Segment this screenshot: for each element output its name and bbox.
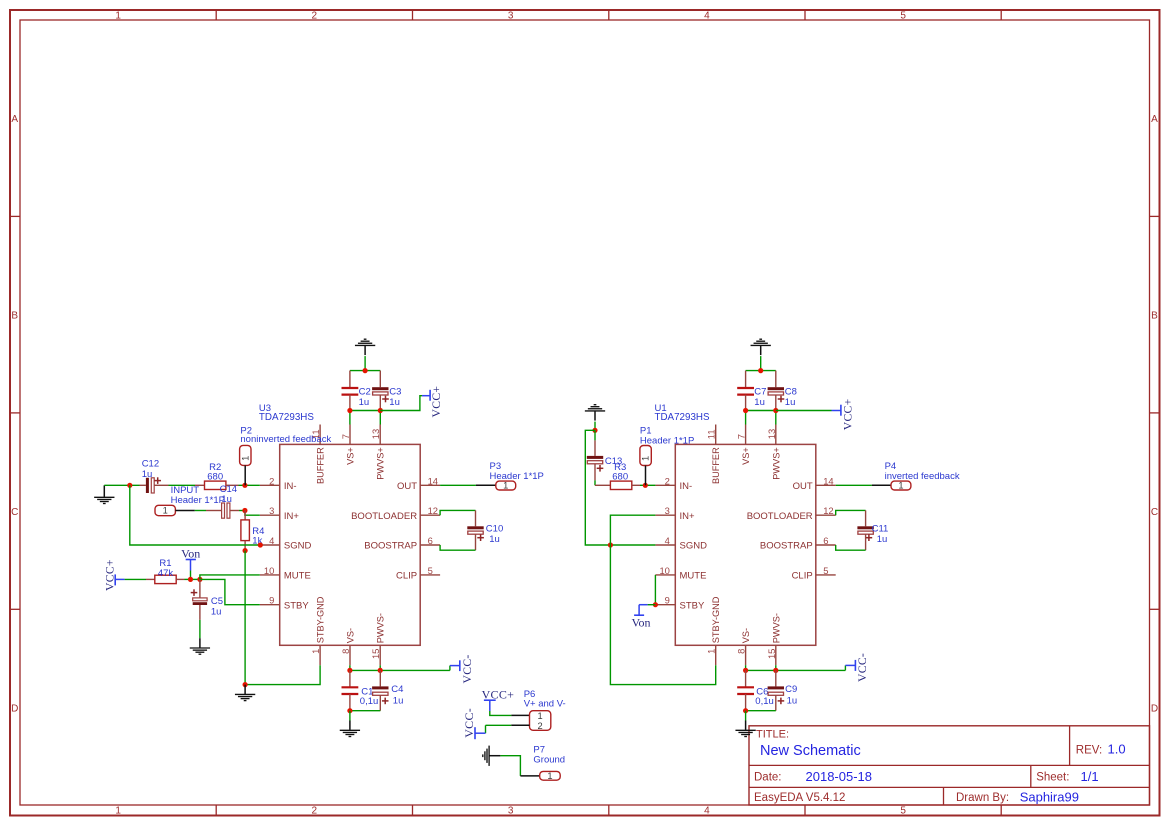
svg-text:1: 1 (115, 806, 121, 817)
wire: top gnd rail C7-C8 (746, 370, 776, 372)
svg-text:1u: 1u (211, 607, 222, 618)
capacitor C12 1u (140, 458, 169, 493)
ground (under C6/C9) (735, 721, 755, 737)
U1 pin 3 (IN+) (655, 505, 695, 522)
U3 pin 4 (SGND) (260, 535, 312, 552)
svg-text:4: 4 (269, 535, 274, 546)
svg-text:5: 5 (900, 806, 906, 817)
ground (bottom left of U3) (235, 685, 255, 701)
U3 pin 14 (OUT) (397, 475, 440, 492)
ground (top, above C7/C8) (751, 339, 771, 370)
svg-text:2: 2 (665, 475, 670, 486)
wire: gnd flag to P7 (500, 756, 539, 776)
ground (top, above C2/C3) (355, 339, 375, 370)
svg-text:Header 1*1P: Header 1*1P (640, 435, 694, 446)
svg-text:Von: Von (181, 546, 200, 560)
svg-text:VCC+: VCC+ (104, 559, 117, 591)
node: U1 pin 15 junction (773, 668, 778, 673)
ground (under C1/C4) (340, 721, 360, 737)
U3 pin 8 (VS-) (340, 628, 356, 665)
svg-text:STBY: STBY (680, 600, 705, 611)
svg-text:1: 1 (898, 481, 903, 491)
wire: top gnd rail C2-C3 (350, 370, 380, 372)
svg-text:1u: 1u (877, 534, 888, 545)
U3 refdes label (259, 403, 314, 423)
wire: SGND net (gnd rail to pin 4) (130, 485, 260, 545)
wire: Von node to pin 10 MUTE (200, 575, 260, 580)
U3 pin 6 (BOOSTRAP) (364, 535, 440, 552)
node: noninverted feedback junction (242, 483, 247, 488)
node: junction at C14 right / R4 top (242, 508, 247, 513)
node: SGND junction (608, 542, 613, 547)
svg-text:STBY-GND: STBY-GND (711, 596, 721, 643)
ground flag (P7) (483, 746, 501, 766)
U1 refdes label (655, 403, 710, 423)
capacitor C6 0,1u (737, 670, 774, 710)
node: pin 8 junction (347, 668, 352, 673)
svg-text:Date:: Date: (754, 772, 782, 784)
svg-text:2: 2 (312, 806, 318, 817)
U3 pin 10 (MUTE) (260, 565, 311, 582)
svg-text:13: 13 (766, 429, 777, 439)
svg-text:C9: C9 (785, 684, 797, 695)
ground (under C5) (190, 638, 210, 654)
capacitor C7 1u (737, 371, 766, 411)
svg-text:1/1: 1/1 (1081, 769, 1099, 784)
node: C3 bottom junction (378, 408, 383, 413)
svg-text:680: 680 (612, 472, 628, 483)
svg-text:SGND: SGND (680, 541, 708, 552)
svg-text:2: 2 (269, 475, 274, 486)
svg-text:10: 10 (659, 565, 669, 576)
svg-text:Ground: Ground (533, 754, 565, 765)
wire: U1 VS- rail (746, 665, 846, 670)
svg-text:Drawn By:: Drawn By: (956, 792, 1009, 804)
svg-text:D: D (11, 703, 18, 714)
wire: P6 pin 2 to VCC- flag (486, 725, 530, 733)
svg-text:1u: 1u (389, 397, 400, 408)
svg-text:8: 8 (736, 649, 747, 654)
resistor R2 680 (195, 462, 239, 490)
capacitor C11 1u (bootloader-boostrap) (836, 510, 889, 550)
U3 pin 2 (IN-) (260, 475, 297, 492)
svg-text:TDA7293HS: TDA7293HS (259, 412, 314, 423)
ground (top left of U1) (585, 405, 605, 431)
net label Von (181, 546, 200, 579)
svg-text:4: 4 (665, 535, 670, 546)
svg-text:12: 12 (428, 505, 438, 516)
svg-text:PWVS-: PWVS- (376, 613, 386, 643)
svg-text:OUT: OUT (793, 481, 813, 492)
svg-text:VCC+: VCC+ (430, 386, 443, 418)
svg-text:4: 4 (704, 806, 710, 817)
svg-text:BOOTLOADER: BOOTLOADER (351, 511, 417, 522)
capacitor C1 0,1u (342, 670, 379, 710)
U1 pin 5 (CLIP) (792, 565, 836, 582)
svg-text:STBY: STBY (284, 600, 309, 611)
svg-text:6: 6 (428, 535, 433, 546)
svg-text:Von: Von (631, 615, 650, 629)
wire: VCC+ flag to P6 pin 1 (490, 711, 530, 715)
U3 pin 7 (VS+) (340, 425, 356, 465)
resistor R1 47k (146, 558, 185, 583)
wire: VCC+ to R1 (125, 578, 146, 580)
svg-text:VS-: VS- (741, 628, 751, 643)
svg-text:7: 7 (736, 434, 747, 439)
wire: pin 1 STBY-GND to bottom ground (245, 665, 320, 684)
resistor R3 680 (595, 462, 640, 490)
op-amp U3 TDA7293HS body (280, 444, 421, 645)
U1 pin 4 (SGND) (655, 535, 707, 552)
svg-text:4: 4 (704, 10, 710, 21)
svg-text:BOOSTRAP: BOOSTRAP (760, 541, 813, 552)
header P1 (Header 1*1P) (640, 426, 694, 486)
header P4 inverted feedback (836, 461, 960, 491)
U3 pin 9 (STBY) (260, 595, 310, 612)
U3 pin 5 (CLIP) (396, 565, 440, 582)
svg-text:1u: 1u (785, 397, 796, 408)
svg-text:2: 2 (538, 721, 543, 731)
svg-text:5: 5 (823, 565, 828, 576)
svg-text:D: D (1151, 703, 1158, 714)
node: U1 pin 8 junction (743, 668, 748, 673)
svg-text:1.0: 1.0 (1108, 742, 1126, 757)
U1 pin 1 (STBY-GND) (706, 596, 722, 665)
U3 pin 12 (BOOTLOADER) (351, 505, 440, 522)
svg-text:1u: 1u (489, 534, 500, 545)
svg-text:C11: C11 (872, 523, 889, 534)
node: junction at C12 left (127, 483, 132, 488)
wire: gnd node to SGND rail (left drop) (585, 430, 655, 545)
svg-text:VCC+: VCC+ (842, 398, 855, 430)
svg-text:C4: C4 (391, 684, 403, 695)
capacitor C13 1u (587, 430, 623, 485)
wire: R1 to Von node (185, 578, 200, 580)
svg-text:PWVS+: PWVS+ (376, 447, 386, 479)
svg-text:C5: C5 (211, 596, 223, 607)
svg-text:STBY-GND: STBY-GND (316, 596, 326, 643)
U1 pin 6 (BOOSTRAP) (760, 535, 836, 552)
svg-text:1u: 1u (221, 494, 232, 505)
svg-text:1u: 1u (142, 469, 153, 480)
svg-text:BUFFER: BUFFER (316, 447, 326, 484)
svg-text:C: C (11, 507, 18, 518)
svg-text:B: B (1151, 310, 1158, 321)
power flag VCC+ (at R1) (104, 559, 125, 591)
svg-text:7: 7 (340, 434, 351, 439)
U3 pin 3 (IN+) (260, 505, 300, 522)
svg-text:C: C (1151, 507, 1158, 518)
svg-text:1: 1 (503, 481, 508, 491)
svg-text:New Schematic: New Schematic (760, 743, 861, 759)
U1 pin 12 (BOOTLOADER) (747, 505, 836, 522)
node: C7 bottom junction (743, 408, 748, 413)
header INPUT (Header 1*1P) (155, 485, 225, 516)
node: inverted feedback junction (643, 483, 648, 488)
U1 pin 10 (MUTE) (655, 565, 706, 582)
node: C1 bottom junction (347, 708, 352, 713)
power flag VCC- (at VS- rail) (450, 654, 474, 683)
svg-text:VCC-: VCC- (461, 654, 474, 683)
wire: R4 bottom to bottom gnd rail (244, 551, 246, 685)
svg-text:1u: 1u (359, 397, 370, 408)
svg-text:Header 1*1P: Header 1*1P (171, 495, 225, 506)
svg-text:IN-: IN- (284, 481, 297, 492)
svg-text:1: 1 (641, 456, 651, 461)
node: R4 bottom junction (243, 548, 248, 553)
wire: pin 10 MUTE to pin 9 STBY (654, 575, 656, 605)
svg-text:5: 5 (900, 10, 906, 21)
net label VCC- (P6 pin 2) (462, 708, 486, 739)
svg-text:1: 1 (115, 10, 121, 21)
svg-text:IN+: IN+ (680, 511, 696, 522)
header P3 (Header 1*1P at OUT) (440, 461, 544, 491)
svg-text:VS+: VS+ (741, 447, 751, 465)
svg-text:3: 3 (508, 806, 514, 817)
wire: input gnd to C12 (104, 484, 139, 486)
wire: R3 to pin 2 (640, 484, 655, 486)
svg-text:inverted feedback: inverted feedback (885, 471, 960, 482)
svg-text:OUT: OUT (397, 481, 417, 492)
svg-text:C10: C10 (486, 523, 503, 534)
svg-text:C7: C7 (754, 386, 766, 397)
U1 pin 11 (BUFFER) (706, 425, 722, 485)
svg-text:1: 1 (310, 649, 321, 654)
svg-text:Saphira99: Saphira99 (1020, 789, 1079, 804)
svg-text:9: 9 (665, 595, 670, 606)
svg-text:1: 1 (706, 649, 717, 654)
svg-text:3: 3 (665, 505, 670, 516)
node: Von junction (188, 577, 193, 582)
svg-text:B: B (11, 310, 18, 321)
svg-text:14: 14 (428, 475, 438, 486)
svg-text:2: 2 (312, 10, 318, 21)
svg-text:noninverted feedback: noninverted feedback (240, 434, 331, 445)
header P6 V+ and V- (524, 689, 566, 731)
wire: VS- rail (350, 665, 450, 670)
resistor R4 1k (241, 511, 265, 551)
op-amp U1 TDA7293HS body (675, 444, 816, 645)
svg-text:A: A (11, 114, 18, 125)
svg-text:3: 3 (269, 505, 274, 516)
svg-text:BOOTLOADER: BOOTLOADER (747, 511, 813, 522)
wire: INPUT header to C14 (195, 510, 206, 512)
wire: C5 to ground (199, 620, 201, 638)
svg-text:IN-: IN- (680, 481, 693, 492)
U3 pin 11 (BUFFER) (310, 425, 326, 485)
header P2 noninverted feedback (240, 426, 332, 486)
svg-text:1u: 1u (393, 696, 404, 707)
capacitor C10 1u (bootloader-boostrap) (440, 510, 503, 550)
wire: C1 bottom to ground (349, 711, 351, 721)
power flag VCC+ (top, at C3) (380, 386, 443, 418)
svg-text:TITLE:: TITLE: (756, 729, 789, 741)
node: junction above C13 (592, 428, 597, 433)
net label Von (U1 STBY) (631, 605, 655, 630)
ground (input, far left) (94, 485, 114, 503)
U1 pin 15 (PWVS-) (766, 613, 782, 665)
wire: R2 to pin 2 node (239, 484, 260, 486)
svg-text:BOOSTRAP: BOOSTRAP (364, 541, 417, 552)
capacitor C8 1u (768, 371, 797, 411)
svg-text:REV:: REV: (1076, 744, 1102, 756)
svg-text:C8: C8 (785, 386, 797, 397)
svg-text:5: 5 (428, 565, 433, 576)
svg-text:C3: C3 (389, 386, 401, 397)
wire: SGND down to pin 1 STBY-GND (610, 545, 715, 685)
svg-text:15: 15 (766, 649, 777, 659)
svg-text:11: 11 (706, 429, 717, 439)
svg-text:13: 13 (370, 429, 381, 439)
capacitor C2 1u (342, 371, 371, 411)
node: junction at pin 4 (258, 542, 263, 547)
svg-text:1: 1 (547, 771, 552, 781)
svg-text:VS+: VS+ (346, 447, 356, 465)
net label VCC+ (P6 pin 1) (482, 687, 515, 711)
svg-text:VS-: VS- (346, 628, 356, 643)
node: bottom ground junction (243, 682, 248, 687)
capacitor C9 1u (746, 670, 798, 710)
capacitor C3 1u (372, 371, 401, 411)
node: C6 bottom junction (743, 708, 748, 713)
svg-text:V+ and V-: V+ and V- (524, 699, 566, 710)
svg-text:A: A (1151, 114, 1158, 125)
svg-text:47k: 47k (158, 568, 174, 579)
svg-text:1: 1 (163, 506, 168, 516)
svg-text:14: 14 (823, 475, 833, 486)
node: pin 15 junction (378, 668, 383, 673)
svg-text:BUFFER: BUFFER (711, 447, 721, 484)
svg-text:3: 3 (508, 10, 514, 21)
svg-text:1u: 1u (754, 397, 765, 408)
capacitor C5 1u (191, 579, 223, 620)
U1 pin 8 (VS-) (736, 628, 752, 665)
svg-text:0,1u: 0,1u (755, 696, 774, 707)
svg-text:0,1u: 0,1u (360, 696, 379, 707)
wire: SGND to pin 3 IN+ (610, 515, 655, 545)
svg-text:TDA7293HS: TDA7293HS (655, 412, 710, 423)
node: STBY junction (653, 602, 658, 607)
svg-text:VCC+: VCC+ (482, 687, 515, 701)
svg-text:MUTE: MUTE (284, 571, 311, 582)
U3 pin 13 (PWVS+) (370, 425, 386, 480)
svg-text:PWVS-: PWVS- (771, 613, 781, 643)
capacitor C4 1u (350, 670, 404, 710)
wire: VS+ rail under C2/C3 (350, 411, 380, 425)
svg-text:VCC-: VCC- (856, 653, 869, 682)
svg-text:EasyEDA V5.4.12: EasyEDA V5.4.12 (754, 792, 845, 804)
wire: Von node to pin 9 STBY (200, 579, 260, 604)
svg-text:MUTE: MUTE (680, 571, 707, 582)
wire: C14 to pin 3 (239, 511, 260, 516)
svg-text:Header 1*1P: Header 1*1P (490, 471, 544, 482)
wire: C12 to R2 (169, 484, 196, 486)
svg-text:CLIP: CLIP (396, 571, 417, 582)
svg-text:IN+: IN+ (284, 511, 300, 522)
U1 pin 14 (OUT) (793, 475, 836, 492)
U1 pin 7 (VS+) (736, 425, 752, 465)
wire: C6 bottom to ground (745, 711, 747, 721)
svg-text:15: 15 (370, 649, 381, 659)
node: top gnd junction (363, 368, 368, 373)
svg-text:C2: C2 (359, 386, 371, 397)
svg-text:10: 10 (264, 565, 274, 576)
svg-text:1: 1 (240, 456, 250, 461)
U1 pin 13 (PWVS+) (766, 425, 782, 480)
U3 pin 15 (PWVS-) (370, 613, 386, 665)
svg-text:680: 680 (207, 472, 223, 483)
svg-text:9: 9 (269, 595, 274, 606)
U1 pin 2 (IN-) (655, 475, 692, 492)
svg-text:1u: 1u (787, 696, 798, 707)
svg-text:12: 12 (823, 505, 833, 516)
svg-text:8: 8 (340, 649, 351, 654)
svg-text:1: 1 (538, 711, 543, 721)
power flag VCC- (U1 VS- rail) (845, 653, 869, 682)
node: C2 bottom junction (347, 408, 352, 413)
svg-text:2018-05-18: 2018-05-18 (806, 769, 873, 784)
power flag VCC+ (top, at C8) (776, 398, 855, 430)
node: C5 top junction (197, 577, 202, 582)
title block (749, 726, 1150, 805)
header P7 Ground (533, 744, 565, 781)
U3 pin 1 (STBY-GND) (310, 596, 326, 665)
svg-text:CLIP: CLIP (792, 571, 813, 582)
svg-text:C12: C12 (142, 458, 159, 469)
node: top gnd junction (U1) (758, 368, 763, 373)
svg-text:PWVS+: PWVS+ (771, 447, 781, 479)
capacitor C14 1u (206, 484, 239, 518)
U1 pin 9 (STBY) (655, 595, 705, 612)
node: C8 bottom junction (773, 408, 778, 413)
svg-text:SGND: SGND (284, 541, 312, 552)
svg-text:Sheet:: Sheet: (1036, 772, 1069, 784)
svg-text:6: 6 (823, 535, 828, 546)
wire: VS+ rail under C7/C8 (746, 411, 776, 425)
svg-text:VCC-: VCC- (462, 708, 476, 738)
